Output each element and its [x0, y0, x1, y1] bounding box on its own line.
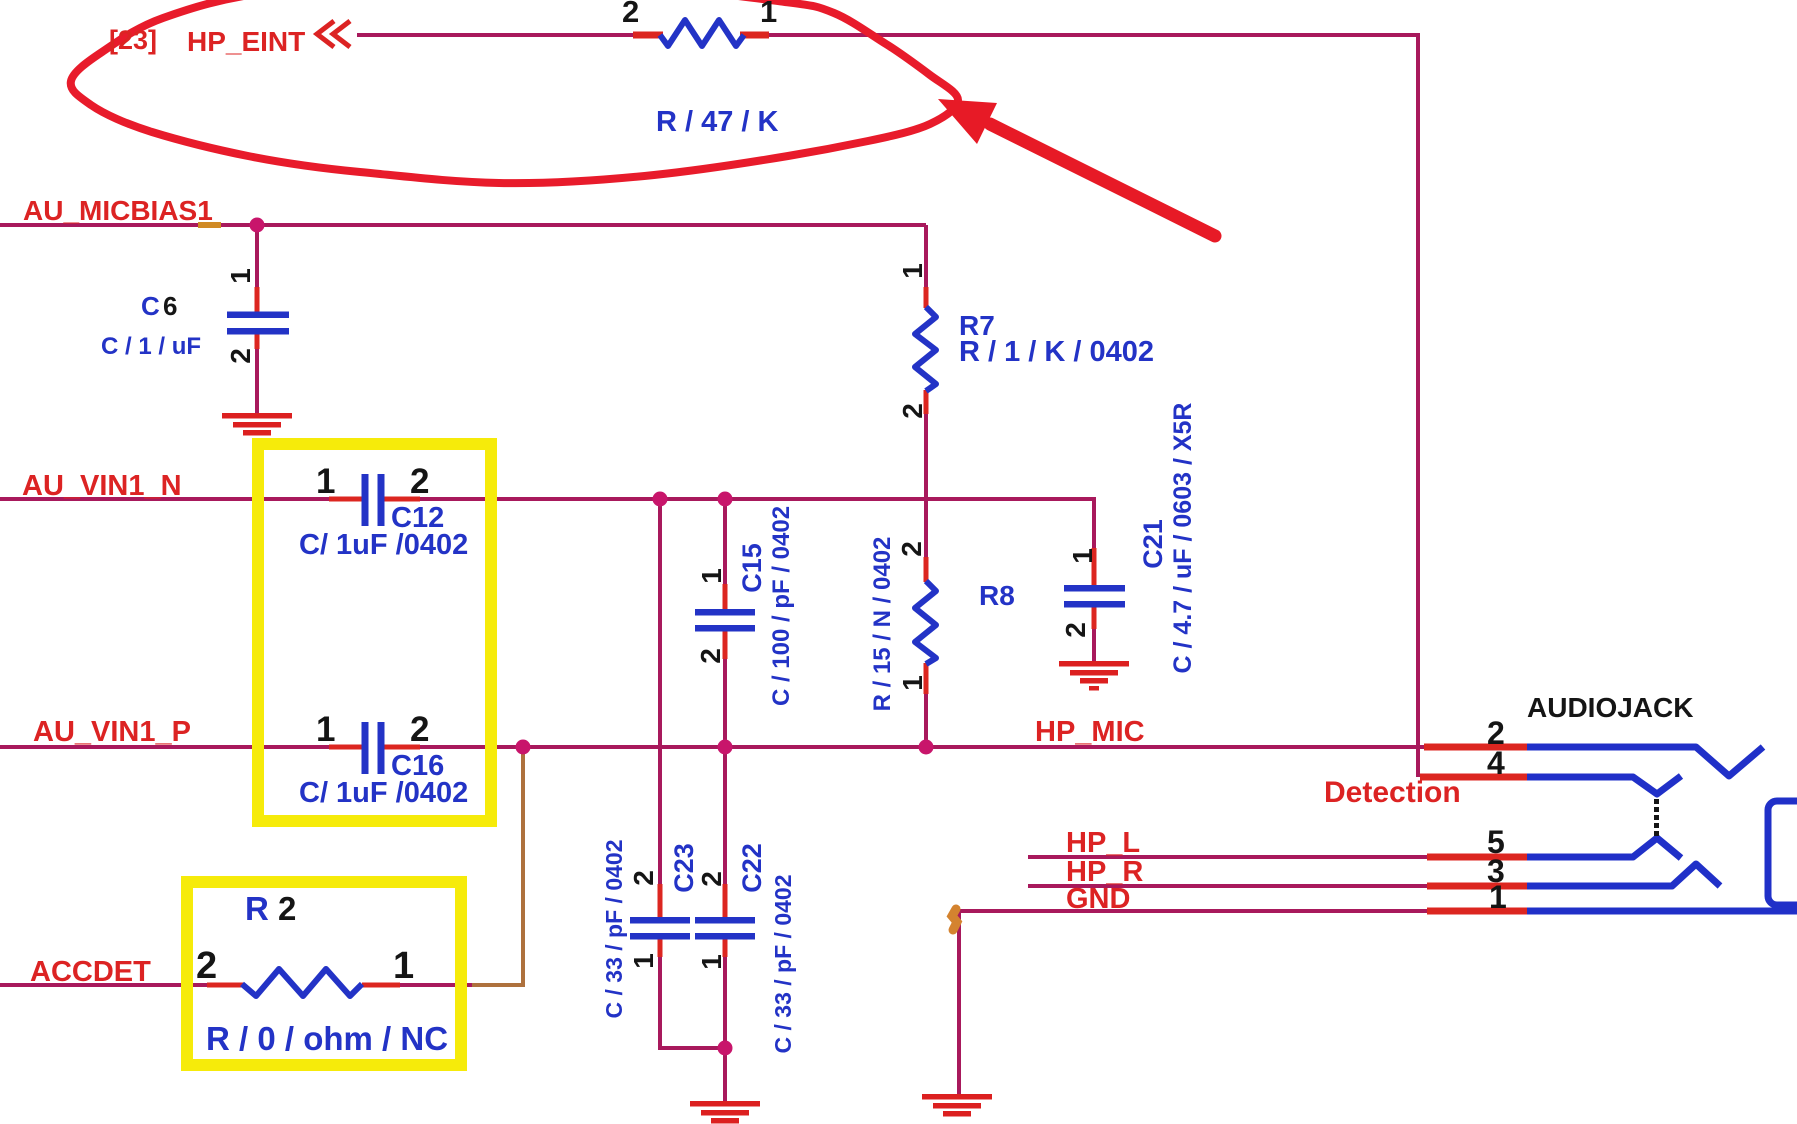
- svg-text:2: 2: [1060, 622, 1091, 638]
- svg-text:2: 2: [225, 348, 256, 364]
- svg-text:C / 33 / pF / 0402: C / 33 / pF / 0402: [601, 840, 627, 1019]
- svg-text:Detection: Detection: [1324, 776, 1461, 809]
- svg-text:R8: R8: [979, 580, 1015, 611]
- svg-text:C6: C6: [141, 291, 177, 321]
- svg-text:1: 1: [760, 0, 777, 29]
- svg-text:1: 1: [316, 462, 335, 501]
- svg-text:C15: C15: [737, 543, 767, 593]
- svg-text:R / 0 / ohm / NC: R / 0 / ohm / NC: [206, 1020, 448, 1057]
- svg-text:1: 1: [696, 568, 727, 584]
- svg-text:HP_EINT: HP_EINT: [187, 26, 305, 57]
- svg-text:1: 1: [225, 268, 256, 284]
- svg-text:HP_L: HP_L: [1066, 827, 1140, 859]
- svg-text:1: 1: [696, 954, 727, 970]
- svg-text:C22: C22: [737, 843, 767, 893]
- svg-text:1: 1: [897, 675, 928, 691]
- svg-text:C21: C21: [1138, 519, 1168, 569]
- svg-text:2: 2: [695, 648, 726, 664]
- svg-text:AU_MICBIAS1: AU_MICBIAS1: [23, 195, 213, 226]
- svg-text:2: 2: [896, 541, 927, 557]
- svg-text:HP_MIC: HP_MIC: [1035, 716, 1145, 748]
- svg-text:1: 1: [1489, 879, 1507, 915]
- svg-text:R / 15 / N / 0402: R / 15 / N / 0402: [869, 537, 896, 712]
- svg-text:2: 2: [897, 403, 928, 419]
- svg-text:R2: R2: [245, 890, 296, 927]
- svg-text:2: 2: [410, 710, 429, 749]
- svg-text:1: 1: [316, 710, 335, 749]
- svg-text:C/ 1uF /0402: C/ 1uF /0402: [299, 777, 468, 809]
- svg-text:C / 4.7 / uF / 0603 / X5R: C / 4.7 / uF / 0603 / X5R: [1169, 403, 1197, 674]
- svg-text:AUDIOJACK: AUDIOJACK: [1527, 692, 1693, 723]
- svg-text:R / 1 / K / 0402: R / 1 / K / 0402: [959, 336, 1154, 368]
- svg-text:C / 1 / uF: C / 1 / uF: [101, 333, 201, 360]
- svg-text:C/ 1uF /0402: C/ 1uF /0402: [299, 529, 468, 561]
- svg-text:AU_VIN1_N: AU_VIN1_N: [22, 470, 182, 502]
- svg-text:2: 2: [628, 870, 659, 886]
- svg-text:1: 1: [628, 953, 659, 969]
- svg-text:GND: GND: [1066, 883, 1130, 915]
- svg-text:C / 33 / pF / 0402: C / 33 / pF / 0402: [770, 875, 796, 1054]
- svg-text:1: 1: [1067, 548, 1098, 564]
- svg-text:C / 100 / pF / 0402: C / 100 / pF / 0402: [768, 506, 795, 706]
- svg-text:4: 4: [1487, 745, 1505, 781]
- svg-text:AU_VIN1_P: AU_VIN1_P: [33, 716, 191, 748]
- svg-text:2: 2: [696, 871, 727, 887]
- svg-text:R / 47 / K: R / 47 / K: [656, 106, 779, 138]
- svg-text:1: 1: [393, 945, 414, 987]
- svg-text:1: 1: [897, 263, 928, 279]
- svg-text:[23]: [23]: [109, 25, 157, 55]
- svg-text:C23: C23: [669, 843, 699, 893]
- svg-text:2: 2: [622, 0, 639, 29]
- svg-text:ACCDET: ACCDET: [30, 956, 151, 988]
- svg-text:2: 2: [410, 462, 429, 501]
- svg-text:2: 2: [196, 945, 217, 987]
